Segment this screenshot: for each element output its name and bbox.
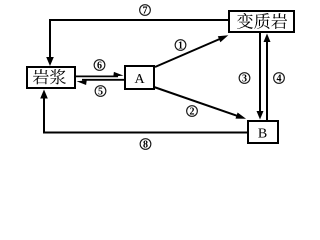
label 1 — [175, 40, 186, 52]
svg-text:2: 2 — [190, 107, 195, 118]
wire arrow 2: A bottom-right corner to B top-left corner — [154, 87, 246, 119]
label 8 — [140, 139, 151, 151]
svg-text:B: B — [258, 127, 267, 142]
svg-text:6: 6 — [97, 61, 102, 72]
box 变质岩 (metamorphic rock) — [229, 11, 294, 32]
label 3 — [239, 73, 250, 85]
wire arrow 6: 岩浆 to A, upper line, arrow right — [76, 72, 124, 77]
wire arrow 8: from B left edge along bottom and up into 岩浆 bottom — [40, 90, 247, 133]
label 2 — [187, 106, 198, 118]
label 6 — [94, 60, 105, 72]
wire arrow 5: A to 岩浆, lower line, arrow left — [77, 80, 125, 85]
label 4 — [274, 73, 285, 85]
label 5 — [95, 86, 106, 98]
box 岩浆 (magma) — [27, 67, 75, 88]
svg-text:4: 4 — [277, 74, 282, 85]
svg-text:8: 8 — [143, 140, 148, 151]
wire arrow 3: 变质岩 bottom down to B top, arrow down — [257, 33, 264, 120]
svg-text:3: 3 — [242, 74, 247, 85]
box B — [248, 121, 278, 143]
wire arrow 4: B top up to 变质岩 bottom, arrow up — [264, 34, 271, 121]
wire arrow 7: from 变质岩 left edge across top and down into 岩浆 top — [46, 20, 228, 66]
svg-text:5: 5 — [98, 87, 103, 98]
box A — [125, 66, 154, 89]
wire arrow 1: A top-right corner to 变质岩 bottom-left corner — [155, 35, 228, 67]
svg-text:7: 7 — [143, 6, 148, 17]
label 7 — [140, 5, 151, 17]
svg-text:A: A — [134, 72, 145, 87]
svg-text:1: 1 — [178, 41, 183, 52]
